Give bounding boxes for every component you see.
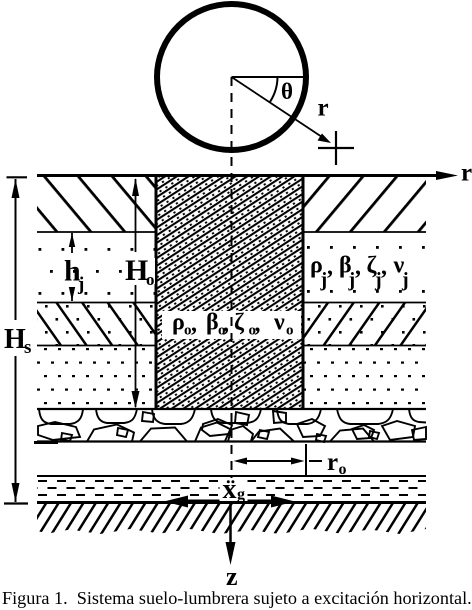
wire: radius r line with arrowhead bbox=[232, 77, 326, 139]
layer 3 hatch+dots (left) bbox=[37, 302, 155, 346]
svg-text:r: r bbox=[318, 95, 329, 122]
svg-text:,: , bbox=[327, 254, 333, 280]
layer 3 hatch+dots (right) bbox=[305, 302, 427, 346]
svg-text:ρ: ρ bbox=[172, 310, 185, 336]
r_o dimension bbox=[234, 444, 323, 475]
white box for xg label bbox=[220, 478, 248, 501]
water dashed layer bbox=[37, 475, 426, 477]
white box + labels rho_o beta_o zeta_o nu_o in shaft bbox=[162, 311, 301, 339]
boundary line layer2/3 bbox=[37, 302, 426, 304]
circle: plan view of shaft bbox=[157, 4, 306, 150]
svg-text:g: g bbox=[237, 486, 245, 503]
layer 2 dotted (right) bbox=[305, 232, 427, 302]
svg-text:H: H bbox=[4, 324, 26, 355]
boundary line layer1/2 bbox=[37, 231, 426, 233]
layer 2 dotted (left) bbox=[37, 232, 155, 302]
node marker: cross at end of r bbox=[318, 147, 354, 149]
label Ho bbox=[123, 258, 155, 284]
rubble layer band bbox=[34, 409, 426, 443]
svg-text:Figura 1. Sistema suelo-lumbr: Figura 1. Sistema suelo-lumbrera sujeto … bbox=[2, 588, 472, 608]
ground surface line with r arrow bbox=[37, 174, 440, 177]
svg-text:,: , bbox=[381, 254, 387, 280]
layer 1 hatched (left) bbox=[37, 177, 155, 232]
z axis arrow bbox=[229, 503, 232, 547]
svg-text:,: , bbox=[223, 311, 229, 337]
svg-text:x: x bbox=[223, 474, 237, 505]
angle theta arc bbox=[270, 77, 278, 102]
wire: horizontal radius line in circle bbox=[232, 76, 304, 78]
svg-text:j: j bbox=[401, 269, 409, 291]
centre dashed axis line bbox=[231, 77, 233, 479]
hj dimension bbox=[69, 233, 75, 301]
Ho dimension bbox=[132, 178, 140, 409]
svg-text:H: H bbox=[125, 254, 148, 287]
svg-text:,: , bbox=[355, 254, 361, 280]
shaft (lumbrera) column bbox=[155, 177, 305, 409]
layer 4 dense dots (right) bbox=[305, 346, 427, 410]
svg-text:,: , bbox=[255, 311, 261, 337]
layer 1 hatched (right) bbox=[305, 177, 427, 232]
svg-text:ν: ν bbox=[273, 310, 285, 336]
svg-text:ζ: ζ bbox=[234, 310, 245, 336]
svg-text:,: , bbox=[191, 311, 197, 337]
svg-text:r: r bbox=[327, 449, 338, 476]
boundary line layer3/4 bbox=[37, 345, 426, 347]
bedrock line bbox=[37, 501, 426, 504]
svg-text:s: s bbox=[24, 337, 31, 358]
layer 4 dense dots (left) bbox=[37, 346, 155, 410]
svg-text:z: z bbox=[226, 562, 238, 591]
Hs dimension bbox=[4, 177, 28, 503]
svg-text:θ: θ bbox=[281, 79, 293, 104]
svg-text:β: β bbox=[206, 310, 219, 336]
svg-text:o: o bbox=[146, 270, 155, 289]
excitation arrows bbox=[164, 496, 295, 508]
svg-text:r: r bbox=[461, 160, 472, 187]
bedrock hatch bbox=[37, 504, 426, 534]
svg-text:o: o bbox=[286, 323, 294, 339]
svg-text:j: j bbox=[77, 274, 84, 295]
